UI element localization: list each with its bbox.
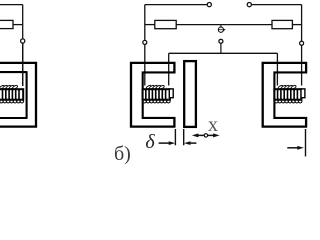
wire vertical lead middle sensor	[144, 5, 146, 86]
wire coil W3 left lead	[276, 53, 278, 85]
svg-text:x: x	[208, 114, 218, 136]
delta dimension arrow right	[184, 141, 196, 145]
delta dimension arrow left	[159, 141, 176, 145]
core 2 outline (E-core)	[131, 63, 175, 127]
wire vertical lead left figure	[22, 5, 24, 86]
armature (middle figure)	[184, 61, 196, 127]
core 3 outline (E-core)	[263, 63, 307, 127]
dimension arrow right figure	[287, 146, 304, 150]
coil W1 (left core)	[0, 85, 24, 103]
supply terminal circle left	[207, 3, 211, 7]
wire output stub down	[220, 43, 222, 53]
wire top rail left figure	[0, 4, 23, 6]
wire coil W2 right lead	[168, 53, 170, 85]
core 1 inner window lines	[0, 71, 28, 118]
coil W2 (middle core)	[143, 85, 171, 103]
wire bridge rail segment 1	[145, 24, 155, 26]
wire lead into coil W1	[22, 43, 24, 86]
wire top rail right segment	[251, 4, 301, 6]
extension line right core tip	[305, 129, 307, 157]
core 2 middle arm tip	[169, 89, 173, 98]
wire vertical lead right sensor	[301, 5, 303, 86]
x displacement double arrow	[192, 133, 220, 137]
wire top rail from node to supply terminal	[145, 4, 207, 6]
galvanometer stub	[220, 25, 222, 27]
wire bridge rail segment 2	[176, 24, 272, 26]
resistor R3	[272, 20, 292, 28]
wire resistor R1 to lead	[13, 24, 23, 26]
terminal circle left figure	[21, 39, 25, 43]
coil W3 (right core)	[274, 85, 302, 103]
supply terminal circle right	[247, 3, 251, 7]
core 3 inner window lines	[274, 72, 307, 118]
resistor R2	[155, 20, 176, 28]
galvanometer circle with arrow	[218, 27, 226, 32]
extension line armature edge	[183, 129, 185, 145]
terminal circle right lead	[300, 41, 304, 45]
extension line core tip	[174, 129, 176, 145]
svg-text:δ: δ	[145, 131, 155, 153]
resistor R1 (cut at edge)	[0, 20, 13, 28]
core 2 inner window lines	[143, 72, 176, 118]
wire bridge rail segment 3	[292, 24, 301, 26]
core 1 outline (mirrored E-core, cut at edge)	[0, 62, 37, 128]
output terminal circle	[219, 39, 223, 43]
core 3 middle arm tip	[301, 89, 305, 98]
wire lower rail between coils	[169, 52, 278, 54]
svg-text:б): б)	[114, 143, 131, 165]
terminal circle middle lead	[143, 40, 147, 44]
